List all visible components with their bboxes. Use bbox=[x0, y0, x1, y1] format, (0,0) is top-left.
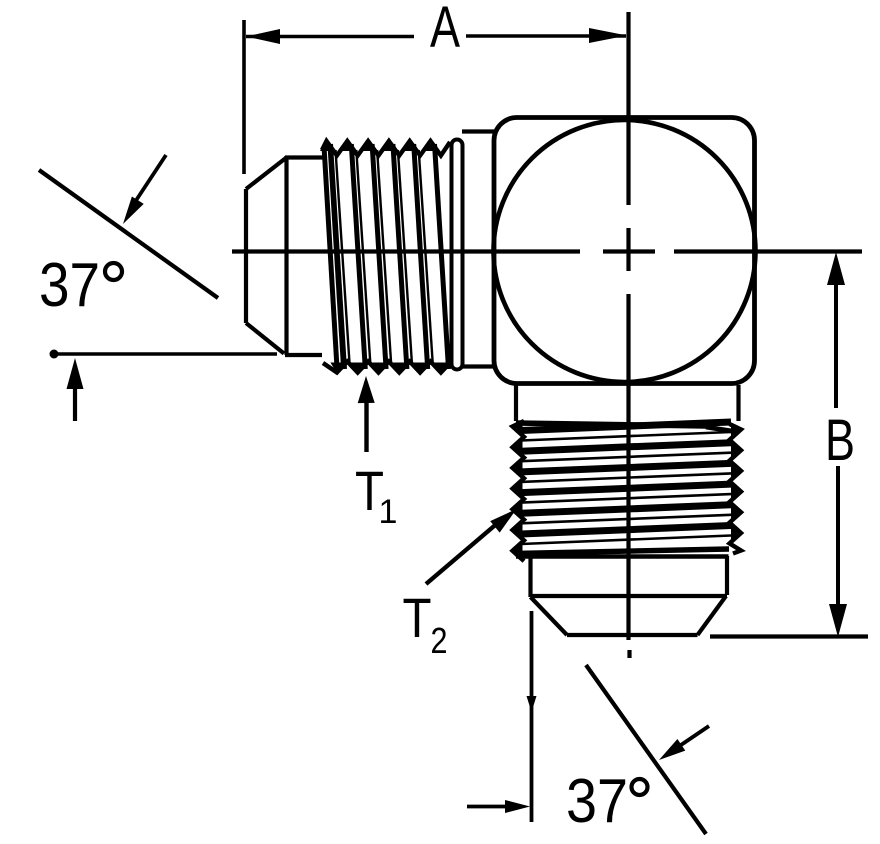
bottom 37deg horizontal arrowhead bbox=[505, 800, 530, 813]
lower fitting nose right edge bbox=[725, 556, 729, 595]
dimension A extension line left bbox=[242, 20, 246, 174]
bottom 37deg extension arrowhead bbox=[527, 696, 537, 712]
left fitting neck bottom edge bbox=[462, 364, 496, 368]
T1 arrowhead bbox=[358, 376, 375, 403]
left fitting flare cone tip edge bbox=[244, 189, 248, 323]
flare reference line dot bbox=[50, 350, 59, 359]
lower fitting nose shoulder line bbox=[516, 554, 729, 558]
dimension A arrowhead left bbox=[246, 29, 280, 44]
lower fitting cone shoulder line bbox=[531, 594, 728, 598]
dimension B line lower segment bbox=[836, 466, 840, 606]
T2 arrow shaft bbox=[426, 521, 500, 584]
bottom 37deg horizontal arrow line bbox=[467, 805, 508, 809]
svg-text:A: A bbox=[430, 0, 460, 60]
left 37deg angle line bbox=[39, 170, 218, 298]
left fitting thread runout strip bbox=[452, 140, 463, 370]
bottom 37deg angle line bbox=[586, 665, 706, 834]
lower fitting neck right edge bbox=[736, 385, 740, 421]
left 37deg arrowhead bbox=[123, 197, 144, 225]
T2 arrowhead bbox=[490, 509, 516, 533]
left 37deg arrow shaft bbox=[133, 155, 166, 205]
dimension A line right segment bbox=[466, 34, 626, 38]
flare reference line bbox=[50, 352, 277, 356]
dimension A line left segment bbox=[246, 35, 414, 39]
lower fitting thread runout line bbox=[515, 549, 729, 554]
dimension B down arrowhead bbox=[829, 604, 847, 637]
lower fitting cone left slope bbox=[531, 597, 568, 635]
dimension B up arrowhead bbox=[827, 252, 845, 285]
left fitting flare base line bbox=[284, 156, 288, 355]
T1 arrow stem bbox=[364, 400, 368, 452]
vertical centerline bbox=[626, 12, 630, 205]
svg-text:T: T bbox=[403, 586, 432, 649]
svg-text:37: 37 bbox=[39, 251, 100, 320]
lower fitting thread crest right zigzag bbox=[730, 424, 742, 554]
flare reference up arrow stem bbox=[73, 389, 77, 421]
lower fitting nose left edge bbox=[528, 556, 532, 597]
left fitting neck top edge bbox=[462, 129, 496, 133]
flare reference up arrow head bbox=[67, 358, 84, 389]
left fitting thread crest bottom zigzag bbox=[323, 362, 451, 373]
body rounded square bbox=[494, 118, 755, 384]
left fitting cylinder bottom edge bbox=[285, 353, 322, 357]
lower fitting cone right slope bbox=[698, 596, 727, 635]
lower fitting thread crest left zigzag bbox=[513, 421, 525, 561]
lower fitting neck left edge bbox=[514, 385, 518, 421]
left fitting flare cone bottom chamfer bbox=[246, 323, 284, 354]
dimension B bottom extension line bbox=[710, 634, 868, 638]
lower fitting cone bottom edge bbox=[567, 633, 698, 637]
dimension B line upper segment bbox=[834, 284, 838, 408]
lower fitting thread flank lines bbox=[521, 422, 731, 431]
svg-text:2: 2 bbox=[431, 620, 448, 661]
horizontal centerline bbox=[232, 249, 580, 253]
body circle bbox=[494, 120, 756, 382]
svg-text:B: B bbox=[825, 408, 855, 473]
left fitting thread flank lines bbox=[324, 146, 337, 368]
bottom 37deg arrowhead bbox=[659, 739, 685, 760]
dimension A arrowhead right bbox=[589, 28, 627, 43]
svg-text:37: 37 bbox=[566, 767, 628, 836]
bottom 37deg arrow shaft bbox=[678, 726, 709, 747]
lower fitting thread start edge bbox=[516, 423, 706, 426]
left fitting cylinder top edge bbox=[285, 155, 323, 159]
bottom 37deg extension line bbox=[530, 611, 534, 822]
left fitting flare cone top chamfer bbox=[246, 158, 287, 190]
svg-text:1: 1 bbox=[379, 493, 398, 531]
left fitting thread crest top zigzag bbox=[322, 141, 450, 156]
